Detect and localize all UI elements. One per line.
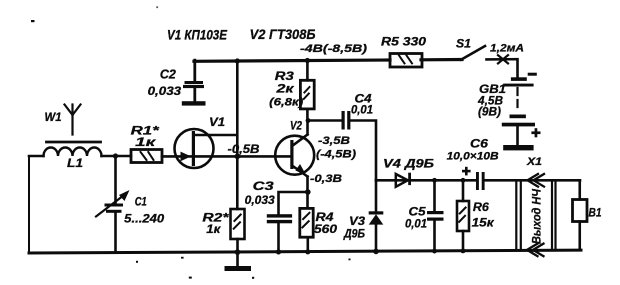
svg-text:-4В(-8,5В): -4В(-8,5В) — [300, 43, 367, 55]
svg-text:V3: V3 — [349, 216, 366, 228]
svg-text:W1: W1 — [45, 110, 62, 124]
svg-text:R6: R6 — [473, 200, 489, 214]
svg-text:10,0×10В: 10,0×10В — [447, 151, 499, 163]
svg-text:С6: С6 — [470, 137, 488, 151]
svg-text:V1: V1 — [209, 115, 225, 129]
svg-text:0,033: 0,033 — [245, 195, 276, 207]
svg-text:1к: 1к — [135, 135, 156, 149]
svg-text:(9В): (9В) — [478, 105, 501, 119]
svg-text:5...240: 5...240 — [124, 214, 165, 226]
svg-text:С3: С3 — [253, 179, 274, 193]
svg-text:С4: С4 — [355, 92, 372, 106]
svg-text:1к: 1к — [206, 222, 221, 236]
svg-text:V1 КП103Е: V1 КП103Е — [167, 27, 228, 43]
svg-text:-0,3В: -0,3В — [310, 173, 342, 185]
svg-text:0,033: 0,033 — [148, 86, 182, 98]
svg-text:С1: С1 — [135, 197, 147, 209]
svg-text:R4: R4 — [316, 210, 334, 224]
svg-text:V2 ГТ308Б: V2 ГТ308Б — [250, 26, 316, 42]
svg-text:В1: В1 — [589, 206, 602, 220]
svg-text:15к: 15к — [472, 216, 495, 230]
svg-text:560: 560 — [314, 224, 338, 236]
svg-text:L1: L1 — [67, 158, 83, 170]
svg-text:S1: S1 — [456, 37, 471, 51]
svg-text:Х1: Х1 — [526, 156, 542, 168]
svg-text:-0,5В: -0,5В — [228, 142, 260, 156]
svg-text:2к: 2к — [275, 82, 295, 96]
svg-text:С2: С2 — [160, 66, 177, 81]
svg-text:V2: V2 — [290, 119, 302, 133]
svg-text:0,01: 0,01 — [351, 105, 373, 117]
svg-text:(6,8к): (6,8к) — [269, 97, 303, 109]
svg-text:V4 Д9Б: V4 Д9Б — [383, 159, 434, 171]
svg-text:Выход НЧ: Выход НЧ — [530, 189, 544, 244]
svg-text:Д9Б: Д9Б — [343, 229, 365, 241]
svg-text:(-4,5В): (-4,5В) — [316, 149, 356, 161]
svg-text:-3,5В: -3,5В — [318, 135, 350, 147]
svg-text:1,2мА: 1,2мА — [490, 43, 524, 55]
svg-text:0,01: 0,01 — [405, 217, 427, 231]
svg-text:R5 330: R5 330 — [381, 35, 426, 49]
